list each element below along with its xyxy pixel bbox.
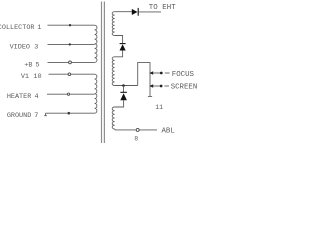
svg-text:1: 1 [37,24,41,32]
label VIDEO pin 3 [10,43,39,51]
wire circle to ABL label [139,129,157,131]
wire pin3 VIDEO [48,43,95,45]
wire winding B bottom to riser [115,85,138,87]
riser wire up to divider top [138,62,150,85]
primary winding L1 pins 1-3-5 [95,25,97,62]
open terminal circle on V1 wire [68,73,71,76]
focus/screen divider body pin 11 [148,62,152,96]
svg-text:10: 10 [33,73,41,81]
wire pin7 GROUND [46,112,95,114]
wire D3 to winding C top [115,100,124,107]
SCREEN tap wiper arrow [149,84,153,87]
FOCUS tap wiper arrow [149,71,153,74]
ground stub hook at wire start [44,113,47,116]
wire winding A bottom to D2 [115,36,123,44]
svg-text:HEATER: HEATER [7,93,31,101]
svg-text:7: 7 [34,112,38,120]
junction dot on COLLECTOR wire [69,24,71,26]
FOCUS tap wire [153,72,160,74]
svg-text:GROUND: GROUND [7,112,31,120]
wire winding C bottom to ABL [115,129,137,130]
secondary winding section B [112,57,114,86]
svg-text:ABL: ABL [162,127,175,135]
wire D1 to EHT [139,11,161,13]
diode D2 [120,44,126,51]
open terminal circle on HEATER wire [67,93,69,95]
SCREEN terminal dot [160,85,163,88]
svg-text:VIDEO: VIDEO [10,43,30,51]
junction dot on VIDEO wire [69,43,71,45]
winding L2 pins 10-4-7 [95,74,97,113]
wire pin5 +B [48,61,95,63]
label +B pin 5 [24,61,39,69]
label GROUND pin 7 [7,112,39,120]
open terminal circle pin 8 [136,128,139,131]
junction dot node at winding B bottom [122,84,125,87]
diode D3 [120,92,127,100]
FOCUS dash [165,72,170,74]
FOCUS terminal dot [160,72,163,75]
SCREEN tap wire [153,85,160,87]
svg-text:8: 8 [134,136,138,143]
wire dot down to diode D3 [123,86,125,93]
svg-text:4: 4 [34,93,38,101]
SCREEN dash [164,85,169,87]
svg-text:+B: +B [24,61,32,69]
junction dot on GROUND wire [68,112,71,115]
svg-text:TO EHT: TO EHT [149,4,176,12]
diode D1 (EHT rectifier) [132,8,138,16]
wire winding A top to diode D1 [115,11,132,13]
label COLLECTOR pin 1 [0,24,41,32]
label V1 pin 10 [21,73,42,81]
wire D2 to winding B top [115,50,123,56]
wire pin10 V1 [49,73,95,75]
wire pin4 HEATER [47,93,95,95]
svg-text:3: 3 [34,43,38,51]
svg-text:5: 5 [36,61,40,69]
open terminal circle on +B wire [69,61,72,64]
svg-text:11: 11 [155,104,163,111]
svg-text:COLLECTOR: COLLECTOR [0,24,35,32]
transformer core [102,2,105,144]
svg-text:SCREEN: SCREEN [171,83,198,91]
svg-text:V1: V1 [21,73,29,81]
label HEATER pin 4 [7,93,39,101]
secondary winding section A (EHT top) [112,12,114,36]
wire pin1 COLLECTOR [48,24,95,26]
secondary winding section C (ABL) [112,107,114,129]
svg-text:FOCUS: FOCUS [172,71,195,79]
